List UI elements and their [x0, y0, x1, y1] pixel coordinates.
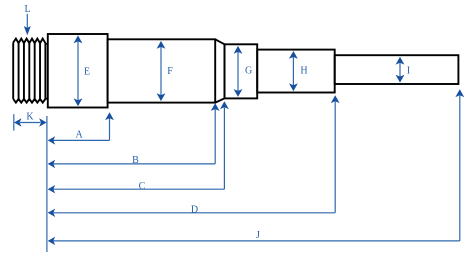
svg-text:H: H	[300, 66, 307, 77]
svg-text:B: B	[132, 155, 139, 166]
svg-text:D: D	[191, 204, 198, 215]
svg-text:C: C	[139, 181, 146, 192]
svg-text:E: E	[84, 67, 90, 78]
svg-text:I: I	[407, 66, 410, 77]
svg-text:A: A	[75, 129, 83, 140]
svg-text:L: L	[24, 4, 30, 15]
svg-text:K: K	[26, 112, 34, 123]
svg-text:F: F	[167, 66, 173, 77]
svg-text:J: J	[256, 230, 260, 241]
svg-text:G: G	[245, 66, 252, 77]
